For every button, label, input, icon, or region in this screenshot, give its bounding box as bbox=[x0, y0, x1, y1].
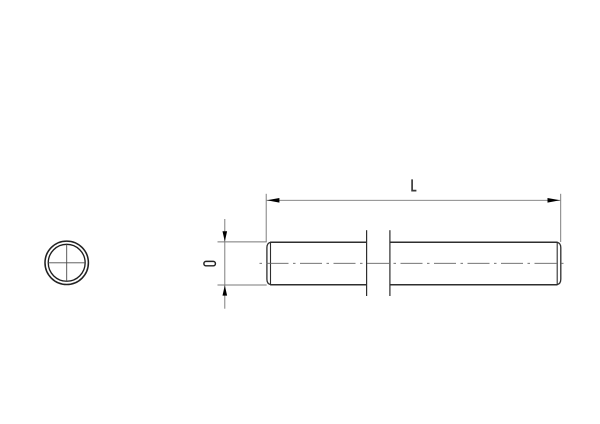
dimension L extension line right bbox=[560, 194, 562, 242]
break line right bbox=[389, 230, 391, 296]
rod right end face outline bbox=[557, 242, 561, 284]
rod left end face outline bbox=[267, 242, 271, 284]
break line left bbox=[366, 230, 368, 296]
dimension L extension line left bbox=[265, 194, 267, 242]
dimension D extension line top bbox=[218, 241, 267, 243]
dimension L left arrowhead bbox=[267, 198, 280, 203]
dimension L line bbox=[267, 199, 561, 201]
end view crosshair vertical line bbox=[66, 244, 68, 281]
dimension D line bbox=[224, 219, 226, 309]
rod top edge left segment bbox=[270, 241, 366, 243]
dimension D extension line bottom bbox=[218, 284, 267, 286]
dimension L label bbox=[412, 179, 416, 190]
dimension D bottom arrowhead bbox=[223, 285, 228, 295]
dimension D top arrowhead bbox=[223, 231, 228, 241]
rod left chamfer line bbox=[270, 242, 272, 285]
rod center line bbox=[260, 262, 568, 264]
dimension D label (letter D rotated 90) bbox=[204, 261, 216, 265]
rod top edge right segment bbox=[390, 241, 558, 243]
rod bottom edge right segment bbox=[390, 284, 558, 286]
rod right chamfer line bbox=[556, 242, 558, 285]
end view outer circle bbox=[45, 241, 88, 284]
rod bottom edge left segment bbox=[270, 284, 366, 286]
end view crosshair horizontal line bbox=[48, 262, 85, 264]
end view inner circle bbox=[48, 244, 85, 281]
dimension L right arrowhead bbox=[548, 198, 561, 203]
